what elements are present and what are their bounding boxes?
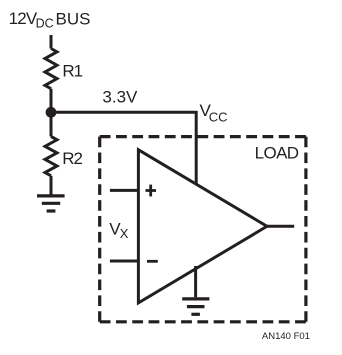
minus input symbol: [147, 260, 158, 263]
svg-text:LOAD: LOAD: [255, 144, 299, 163]
LOAD box dashed bottom edge: [100, 320, 306, 323]
label 12Vdc BUS: [9, 9, 91, 30]
wire op-amp ground stem: [194, 266, 197, 297]
wire R1 to node: [50, 89, 53, 137]
svg-text:3.3V: 3.3V: [102, 87, 138, 106]
LOAD box dashed right edge: [304, 137, 307, 322]
op-amp U1 triangle: [138, 150, 267, 303]
wire noninverting input: [110, 189, 138, 192]
plus input symbol: [146, 185, 157, 197]
svg-text:AN140 F01: AN140 F01: [262, 331, 310, 342]
svg-text:BUS: BUS: [56, 9, 91, 28]
svg-text:X: X: [120, 226, 129, 241]
label Vcc: [200, 101, 228, 124]
svg-text:DC: DC: [36, 16, 54, 30]
node A junction dot: [46, 107, 57, 118]
LOAD box dashed left edge: [98, 137, 101, 322]
resistor R2: [45, 137, 57, 176]
svg-text:R2: R2: [62, 149, 82, 168]
label Vx: [109, 219, 129, 240]
LOAD box dashed top edge: [100, 135, 306, 138]
resistor R1: [45, 49, 57, 89]
wire node to Vcc corner and down: [51, 112, 196, 184]
svg-text:R1: R1: [62, 61, 82, 80]
wire output: [267, 225, 294, 228]
svg-text:12V: 12V: [9, 9, 38, 28]
wire from 12V bus to R1: [50, 35, 53, 49]
wire R2 to ground: [50, 176, 53, 196]
ground (op-amp): [182, 299, 209, 314]
svg-text:CC: CC: [209, 109, 228, 124]
wire inverting input: [110, 260, 138, 263]
ground (left, below R2): [37, 196, 65, 211]
